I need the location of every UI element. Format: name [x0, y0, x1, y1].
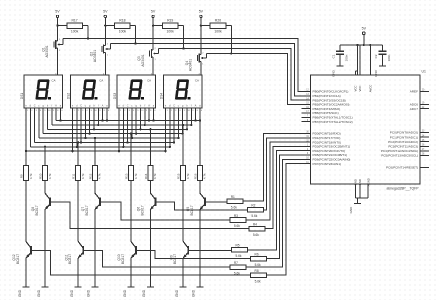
wire R2 to PD1 — [263, 138, 310, 210]
resistor R6 5.6k — [251, 252, 267, 266]
U1 pins AREF ADC6 ADC7 — [410, 90, 429, 111]
transistor Q5 BC817 — [186, 180, 205, 287]
svg-text:R2: R2 — [251, 204, 255, 208]
wire bus to R12 — [94, 137, 96, 165]
wire bus to R10 — [44, 146, 46, 166]
7-segment display DS4 — [160, 73, 203, 112]
svg-text:VCC: VCC — [354, 86, 358, 92]
svg-text:U1: U1 — [422, 70, 426, 74]
svg-text:AO3401: AO3401 — [189, 59, 193, 71]
resistor R14 4.7k — [144, 165, 157, 180]
wire bus to R14 — [149, 128, 151, 165]
svg-text:5V: 5V — [151, 10, 156, 14]
bus segment line 4 — [43, 133, 183, 135]
bus segment line 5 — [39, 137, 179, 139]
wire bus to R11 — [77, 141, 79, 165]
ground 4 — [87, 287, 99, 297]
svg-text:C: C — [34, 104, 36, 107]
svg-text:C: C — [80, 104, 82, 107]
bus segment line 6 — [35, 141, 175, 143]
wire base Q to R2 — [155, 202, 247, 210]
bus segment line 1 — [56, 120, 200, 122]
svg-text:R10: R10 — [38, 173, 42, 179]
svg-text:DS2: DS2 — [67, 93, 71, 99]
svg-text:R9: R9 — [19, 174, 23, 178]
svg-text:ADC7: ADC7 — [410, 107, 419, 111]
svg-text:R12: R12 — [88, 173, 92, 179]
wire R1 to PD0 — [243, 134, 311, 202]
wires DS3 segment pins to bus — [118, 108, 155, 152]
resistor R13 4.7k — [124, 165, 137, 180]
svg-text:AO3401: AO3401 — [141, 54, 145, 66]
svg-text:DS3: DS3 — [113, 93, 117, 99]
wire base Q to R4 — [50, 202, 249, 229]
capacitor C2 100n — [374, 45, 391, 77]
wire bus to R15 — [182, 124, 184, 166]
svg-text:PC3(PCINT11/ADC3): PC3(PCINT11/ADC3) — [388, 145, 418, 149]
wires DS2 segment pins to bus — [71, 108, 108, 152]
wire base Q to R8 — [31, 250, 251, 275]
7-segment display DS3 — [113, 73, 156, 112]
ground 5 — [123, 287, 135, 297]
svg-text:PC5(PCINT13/ADC5/SCL): PC5(PCINT13/ADC5/SCL) — [381, 154, 418, 158]
svg-text:4.7k: 4.7k — [186, 173, 190, 179]
svg-text:R4: R4 — [253, 222, 257, 226]
svg-text:BC817: BC817 — [140, 205, 144, 215]
U1 pins PB0-PB7 — [302, 90, 353, 124]
wire base Q to R6 — [136, 250, 251, 258]
svg-text:4.7k: 4.7k — [29, 173, 33, 179]
svg-text:GND: GND — [331, 69, 335, 77]
svg-text:GND: GND — [192, 289, 196, 297]
ground 3 — [70, 287, 82, 297]
svg-text:100n: 100n — [344, 54, 348, 61]
svg-text:GND: GND — [123, 289, 127, 297]
svg-text:R5: R5 — [235, 244, 239, 248]
bus segment line 2 — [52, 124, 192, 126]
wire gate net Q4 to PB3 — [206, 52, 310, 104]
svg-text:5.6k: 5.6k — [234, 271, 240, 275]
resistor R5 5.6k — [232, 244, 248, 258]
svg-text:4.7k: 4.7k — [203, 173, 207, 179]
resistor R3 5.6k — [230, 214, 246, 228]
svg-text:C: C — [127, 104, 129, 107]
svg-text:R20: R20 — [215, 19, 221, 23]
svg-text:4.7k: 4.7k — [153, 173, 157, 179]
resistor R20 100k — [200, 19, 232, 54]
svg-text:R1: R1 — [231, 195, 235, 199]
svg-text:BC817: BC817 — [190, 205, 194, 215]
svg-text:PC6(PCINT14/RESET): PC6(PCINT14/RESET) — [386, 166, 418, 170]
svg-text:R7: R7 — [234, 261, 238, 265]
supply 5V net 1 — [55, 10, 60, 41]
wire bus to R13 — [130, 133, 132, 166]
wire base Q to R5 — [188, 249, 231, 252]
svg-text:GND: GND — [142, 289, 146, 297]
wires DS4 segment pins to bus — [164, 108, 201, 152]
svg-text:AREF: AREF — [410, 90, 418, 94]
supply 5V net 4 — [199, 10, 204, 55]
svg-text:CA: CA — [52, 79, 56, 83]
resistor R12 4.7k — [88, 165, 101, 180]
svg-text:CA: CA — [195, 79, 199, 83]
resistor R9 4.7k — [19, 165, 32, 180]
resistor R1 5.6k — [227, 195, 243, 209]
bus segment line 3 — [48, 128, 188, 130]
wire gate net Q1 to PB0 — [63, 37, 311, 91]
svg-text:AO3401: AO3401 — [45, 45, 49, 57]
wire R5 to PD4 — [248, 151, 311, 250]
wire gate net Q3 to PB2 — [159, 47, 311, 100]
svg-text:5V: 5V — [362, 26, 367, 30]
svg-text:5V: 5V — [103, 10, 108, 14]
transistor Q11 BC817 — [64, 180, 83, 287]
resistor R19 100k — [152, 19, 184, 49]
wires DS1 segment pins to bus — [26, 108, 62, 151]
svg-text:5V: 5V — [199, 10, 204, 14]
svg-text:VCC: VCC — [358, 86, 362, 92]
svg-text:100k: 100k — [167, 30, 175, 34]
svg-text:5V: 5V — [55, 10, 60, 14]
wire bus to R9 — [25, 108, 27, 165]
svg-text:GND: GND — [358, 179, 362, 185]
svg-text:DS1: DS1 — [20, 93, 24, 99]
svg-text:R11: R11 — [72, 173, 76, 179]
transistor Q2 AO3401 p-mosfet — [89, 44, 110, 76]
svg-text:GND: GND — [374, 69, 378, 77]
U1 pins PD0-PD7 — [302, 132, 351, 166]
wire R6 to PD5 — [267, 155, 311, 259]
svg-text:C1: C1 — [331, 54, 335, 58]
svg-text:100k: 100k — [71, 30, 79, 34]
supply 5V net 3 — [151, 10, 156, 50]
resistor R4 5.6k — [249, 222, 265, 236]
resistor R11 4.7k — [72, 165, 85, 180]
svg-text:R14: R14 — [144, 173, 148, 179]
wire base Q to R1 — [205, 200, 227, 203]
svg-text:5.6k: 5.6k — [235, 254, 241, 258]
resistor R7 5.6k — [230, 261, 246, 275]
ground 1 — [18, 287, 30, 297]
ground under U1 — [349, 204, 361, 214]
svg-text:5.6k: 5.6k — [255, 279, 261, 283]
svg-text:PC2(PCINT10/ADC2): PC2(PCINT10/ADC2) — [388, 140, 418, 144]
transistor Q7 BC817 — [81, 180, 100, 287]
bus segment line 8 — [26, 150, 166, 152]
svg-text:BC817: BC817 — [35, 205, 39, 215]
svg-text:PB7(PCINT7/XTAL2/TOSC2): PB7(PCINT7/XTAL2/TOSC2) — [313, 120, 353, 124]
svg-text:atmega328P__TQFP: atmega328P__TQFP — [386, 187, 419, 191]
supply 5V net U1 — [340, 26, 383, 46]
svg-text:BC817: BC817 — [121, 254, 125, 264]
transistor Q1 AO3401 p-mosfet — [42, 39, 63, 76]
svg-text:C2: C2 — [374, 54, 378, 58]
svg-text:PC1(PCINT9/ADC1): PC1(PCINT9/ADC1) — [390, 135, 418, 139]
svg-text:BC817: BC817 — [68, 254, 72, 264]
ground 6 — [142, 287, 154, 297]
svg-text:AVCC: AVCC — [368, 85, 372, 93]
svg-text:R15: R15 — [177, 173, 181, 179]
wire gate net Q2 to PB1 — [111, 42, 311, 96]
svg-text:AO3401: AO3401 — [93, 50, 97, 62]
svg-text:5.6k: 5.6k — [253, 233, 259, 237]
U1 power pins VCC AVCC — [354, 71, 373, 92]
svg-text:C: C — [173, 104, 175, 107]
svg-text:GND: GND — [349, 206, 353, 214]
svg-text:DS4: DS4 — [160, 93, 164, 99]
svg-text:GND: GND — [354, 179, 358, 185]
svg-text:GND: GND — [87, 289, 91, 297]
svg-text:R19: R19 — [167, 19, 173, 23]
transistor Q6 BC817 — [137, 180, 156, 287]
transistor Q12 BC817 — [12, 180, 31, 287]
svg-text:4.7k: 4.7k — [81, 173, 85, 179]
7-segment display DS2 — [67, 73, 110, 112]
capacitor C1 100n — [331, 45, 348, 77]
supply 5V net 2 — [103, 10, 108, 46]
op-amp U1 atmega328P TQFP body — [311, 70, 426, 191]
svg-text:GND: GND — [70, 289, 74, 297]
transistor Q3 AO3401 p-mosfet — [137, 48, 158, 75]
svg-text:CA: CA — [99, 79, 103, 83]
svg-text:5.6k: 5.6k — [251, 214, 257, 218]
svg-text:R13: R13 — [124, 173, 128, 179]
wire 5V to VCC AVCC — [358, 45, 371, 75]
svg-text:R8: R8 — [255, 269, 259, 273]
svg-text:5.6k: 5.6k — [255, 263, 261, 267]
svg-text:GND: GND — [37, 289, 41, 297]
wire base Q to R7 — [83, 250, 230, 267]
wire R3 to PD2 — [246, 142, 311, 220]
wire bus to R16 — [199, 121, 201, 166]
wire R8 to PD7 — [267, 164, 311, 276]
svg-text:CA: CA — [147, 79, 151, 83]
svg-text:4.7k: 4.7k — [48, 173, 52, 179]
ground 7 — [175, 287, 187, 297]
svg-text:PD7(PCINT23/AIN1): PD7(PCINT23/AIN1) — [313, 162, 342, 166]
transistor Q8 BC817 — [31, 180, 50, 287]
svg-text:4.7k: 4.7k — [98, 173, 102, 179]
wire R7 to PD6 — [246, 159, 311, 267]
resistor R17 100k — [56, 19, 88, 39]
svg-text:100k: 100k — [119, 30, 127, 34]
svg-text:AGND: AGND — [366, 178, 370, 186]
U1 ground pins — [354, 178, 371, 203]
resistor R15 4.7k — [177, 165, 190, 180]
U1 pins PC0-PC6 — [381, 131, 429, 170]
resistor R18 100k — [104, 19, 136, 44]
svg-text:R17: R17 — [71, 19, 77, 23]
svg-text:100k: 100k — [214, 30, 222, 34]
resistor R8 5.6k — [251, 269, 267, 283]
svg-text:R6: R6 — [255, 252, 259, 256]
svg-text:5.6k: 5.6k — [234, 224, 240, 228]
svg-text:100n: 100n — [387, 54, 391, 61]
svg-text:PC0(PCINT8/ADC0): PC0(PCINT8/ADC0) — [390, 131, 418, 135]
svg-text:R3: R3 — [234, 214, 238, 218]
resistor R16 4.7k — [193, 165, 206, 180]
svg-text:BC817: BC817 — [16, 254, 20, 264]
resistor R2 5.6k — [248, 204, 264, 218]
svg-text:5.6k: 5.6k — [231, 205, 237, 209]
svg-text:R18: R18 — [119, 19, 125, 23]
svg-text:BC817: BC817 — [85, 205, 89, 215]
transistor Q9 BC817 — [169, 180, 188, 287]
ground 2 — [37, 287, 49, 297]
transistor Q4 AO3401 p-mosfet — [185, 53, 206, 76]
svg-text:4.7k: 4.7k — [134, 173, 138, 179]
bus segment line 7 — [30, 146, 170, 148]
svg-text:R16: R16 — [193, 173, 197, 179]
svg-text:GND: GND — [175, 289, 179, 297]
wire R4 to PD3 — [265, 146, 311, 228]
7-segment display DS1 — [20, 73, 63, 112]
wire base Q to R3 — [100, 202, 230, 220]
svg-text:GND: GND — [18, 289, 22, 297]
transistor Q10 BC817 — [117, 180, 136, 287]
svg-text:PC4(PCINT12/ADC4/SDA): PC4(PCINT12/ADC4/SDA) — [381, 149, 418, 153]
resistor R10 4.7k — [38, 165, 51, 180]
ground 8 — [192, 287, 204, 297]
